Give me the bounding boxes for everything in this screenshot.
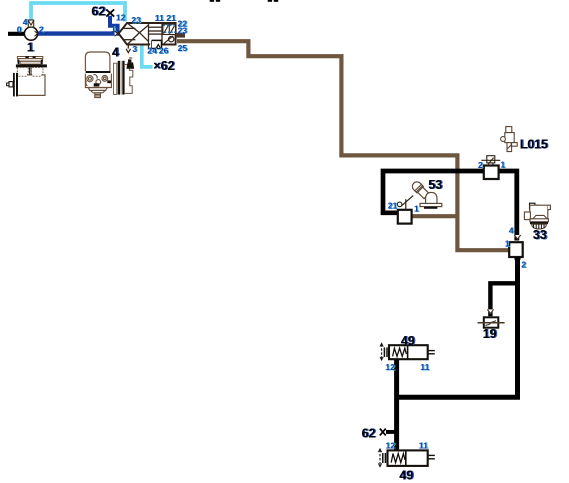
air processing unit 4: outline [119,23,176,45]
compressor port 4 check valve box [28,20,33,27]
APU shelf lines [149,26,163,28]
svg-text:62: 62 [91,4,105,18]
node chevron port 4 [514,235,520,239]
APU drain box ports 24 26 [149,40,162,48]
coupling x lower [380,429,386,436]
APU port 3 exhaust [127,45,129,49]
svg-text:23: 23 [131,15,141,25]
valve 21 lever [405,199,407,210]
stubs right lower [428,454,435,456]
svg-text:33: 33 [533,228,547,242]
wire black valve1 to down corner [498,171,516,241]
node chevron APU port 1 [115,31,118,36]
svg-text:0: 0 [17,24,22,34]
compressor shaft [9,82,13,87]
svg-text:L015: L015 [520,137,548,151]
APU pressure limiter hatched boxes [163,24,176,34]
svg-text:4: 4 [509,225,514,235]
wire black main down from port 2 [397,257,518,397]
wire blue stub port 12 [110,16,118,32]
svg-text:2: 2 [521,260,526,270]
compressor pulley [13,73,15,97]
wire black loop upper from valve 2 to valve 21 [383,171,484,213]
electric connector left [383,347,385,357]
53 bell base [426,192,437,203]
air dryer pictorial [85,52,133,98]
compressor body [18,75,45,96]
svg-text:12: 12 [116,13,126,23]
component L015 pictorial [501,127,518,152]
APU divider 1 [148,23,150,49]
svg-text:4: 4 [23,17,28,27]
pressure switch 49 lower [388,450,428,466]
svg-text:2: 2 [39,24,44,34]
svg-text:12: 12 [385,362,395,372]
svg-text:24: 24 [147,46,157,56]
APU divider 2 [161,23,163,45]
check valve symbol above valve 2-1 [481,156,500,166]
valve 4-1-2 square [509,242,523,257]
svg-text:4: 4 [112,45,119,59]
node chevron port 2 [35,31,38,36]
node arrow port 2 [514,258,520,262]
svg-text:49: 49 [399,468,413,482]
label coupling x top [106,9,114,16]
svg-text:19: 19 [483,327,497,341]
spring zigzag [393,348,407,356]
node arrow into 19 [487,309,493,313]
svg-text:23: 23 [178,25,188,35]
compressor cylinders [17,67,43,76]
valve 2-1 square [484,166,499,180]
air dryer plate stack [118,61,120,95]
compressor U1 circle symbol [24,27,37,40]
compressor head black band [16,64,47,67]
wire black from pressure switch 49 upper [394,359,399,450]
component 53 pictorial drain valve [410,180,429,199]
svg-text:2: 2 [478,160,483,170]
component 33 pictorial [524,203,550,222]
svg-text:11: 11 [155,13,164,23]
APU safety valve circle [164,36,174,44]
svg-text:62: 62 [362,426,376,440]
electric connector left lower [382,453,384,463]
svg-text:26: 26 [159,46,169,56]
svg-text:1: 1 [414,204,419,214]
wire cyan from compressor port 4 to dryer port 23 [31,3,125,22]
air dryer silencer cap [126,62,134,68]
svg-text:53: 53 [428,178,442,192]
valve 21-1 square [398,210,412,224]
APU port 25 plug [177,33,185,38]
svg-text:25: 25 [178,43,188,53]
wire blue main line port 2 to port 1 [37,31,120,35]
svg-text:11: 11 [420,362,429,372]
compressor pictorial [17,56,42,64]
APU dryer zigzag [123,23,162,49]
test point 19 [478,317,505,327]
wire black branch to test point 19 [490,283,515,316]
svg-text:1: 1 [505,239,510,249]
APU dryer hatch lines [123,27,136,29]
wire brown from valve 21 port 1 [412,214,458,218]
wire black port 0 [8,32,25,36]
svg-text:×62: ×62 [153,59,174,73]
wire cyan drain line to coupling 62 [142,44,153,67]
svg-text:1: 1 [500,160,505,170]
svg-text:12: 12 [386,440,396,450]
wire brown main supply from port 25 [177,41,509,250]
svg-text:21: 21 [388,201,398,211]
svg-text:3: 3 [132,44,137,54]
svg-text:49: 49 [401,334,415,348]
svg-text:1: 1 [27,40,34,54]
stubs right [428,350,435,352]
svg-text:21: 21 [166,13,176,23]
svg-text:11: 11 [419,440,428,450]
cropped text marks top edge [210,0,214,2]
pressure switch 49 upper [389,345,428,359]
